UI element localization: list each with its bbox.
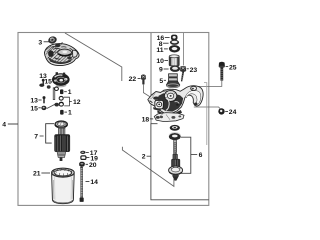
svg-text:14: 14 [90, 179, 98, 186]
svg-text:15: 15 [44, 79, 52, 86]
wire: leader 18 [150, 118, 153, 120]
wire: leader 19 [87, 157, 90, 159]
washer 8 [170, 40, 179, 45]
ring small below 15a [47, 85, 51, 88]
wire: bracket for label 2 [151, 124, 209, 200]
wire: leader 13b [38, 99, 41, 101]
bolt 22 [141, 75, 146, 85]
nut 20 [79, 162, 85, 167]
svg-text:6: 6 [199, 152, 203, 159]
svg-text:4: 4 [2, 122, 6, 129]
svg-text:12: 12 [73, 99, 81, 106]
wire: leader 20 [86, 163, 88, 165]
oil cup 21 [52, 168, 75, 204]
svg-text:11: 11 [156, 47, 163, 54]
wire: diagonal view separator lower [122, 147, 173, 187]
spring seat 9 [170, 66, 180, 72]
pump rotor set [52, 72, 70, 87]
svg-text:13: 13 [30, 98, 38, 105]
ring 12-2 [59, 102, 63, 106]
clip pin below rotor [53, 87, 58, 100]
bolt 25 [219, 62, 225, 81]
svg-text:5: 5 [159, 78, 163, 85]
wire: leader 23 [187, 68, 189, 70]
gasket plate 18 [154, 113, 184, 122]
wire: bracket 12 [64, 97, 70, 106]
bolt 13a [42, 79, 45, 85]
wire: leader 8 [163, 42, 169, 44]
svg-text:9: 9 [159, 67, 163, 74]
wire: leader bolt 23 vertical [182, 33, 184, 65]
washer ring A [170, 125, 180, 131]
svg-text:3: 3 [38, 39, 42, 46]
wire: leader bolt 22 [143, 85, 157, 102]
wire: leader 16 [165, 37, 170, 39]
wire: inner vertical right [204, 83, 207, 145]
svg-text:1: 1 [68, 110, 72, 117]
wire: leader 21 [41, 172, 50, 174]
ring 12-1 [59, 96, 63, 100]
wire: leader 25 [226, 66, 229, 68]
bolt 13b [43, 96, 46, 103]
wire: leader part 24 [194, 107, 221, 109]
svg-text:24: 24 [229, 109, 237, 116]
wire: leader 9 [164, 68, 169, 70]
valve body 5 [166, 74, 179, 88]
svg-text:2: 2 [142, 153, 146, 160]
wire: leader 6 [191, 154, 197, 156]
wire: leader label 4 [8, 123, 18, 125]
wire: diagonal view separator top-left [65, 33, 122, 81]
svg-text:7: 7 [34, 134, 38, 141]
wire: leader 22 [138, 78, 141, 80]
svg-text:1: 1 [68, 89, 72, 96]
wire: leader 5 [164, 79, 166, 81]
svg-text:15: 15 [30, 105, 38, 112]
wire: leader 1a [64, 91, 67, 93]
wire: leader label 3 [44, 41, 49, 43]
svg-text:18: 18 [142, 117, 150, 124]
svg-text:10: 10 [156, 58, 164, 65]
wire: leader 24 [225, 110, 228, 112]
pin 1b [60, 110, 64, 115]
wire: leader 17 [86, 151, 89, 153]
wire: leader 15b diagonal [47, 104, 56, 109]
washer ring B [169, 132, 181, 140]
ring 16 [171, 35, 178, 41]
bolt 23 [180, 66, 186, 81]
washer 15b [41, 106, 46, 110]
wire: leader 7 [40, 135, 44, 137]
svg-text:25: 25 [229, 64, 237, 71]
svg-text:20: 20 [89, 162, 97, 169]
grommet 24 [218, 108, 224, 114]
wire: leader 11 [164, 48, 168, 50]
svg-text:22: 22 [129, 76, 137, 83]
armature assembly 7 [55, 121, 70, 161]
wire: leader 14 [86, 180, 90, 182]
washer 17 [80, 151, 85, 154]
wire: leader 2 [147, 155, 151, 157]
wire: bracket 7 [46, 124, 54, 143]
pump cover assembly [44, 42, 79, 65]
gear washer D [169, 166, 183, 174]
ring 19 [81, 156, 86, 160]
wire: bracket for label 6 [181, 137, 191, 173]
wire: vertical view separator center [150, 33, 152, 124]
svg-text:23: 23 [190, 67, 198, 74]
pump shaft 6 [172, 140, 180, 167]
cone E [172, 175, 179, 181]
border frame [18, 33, 209, 206]
pump housing body [148, 86, 203, 116]
o-ring 11 [169, 45, 180, 52]
wire: leader 12 [69, 101, 71, 103]
bolt 14 [80, 167, 84, 202]
svg-text:21: 21 [33, 171, 41, 178]
wire: leader bolt 25 [195, 81, 222, 87]
washer 15a [39, 84, 44, 87]
cap 3 [47, 35, 57, 44]
pin 1a [60, 89, 63, 94]
piston 10 [169, 55, 179, 66]
wire: leader 15b [38, 107, 40, 109]
small part at leader end [55, 103, 59, 107]
wire: leader 10 [164, 60, 168, 62]
wire: leader 1b [64, 111, 67, 113]
